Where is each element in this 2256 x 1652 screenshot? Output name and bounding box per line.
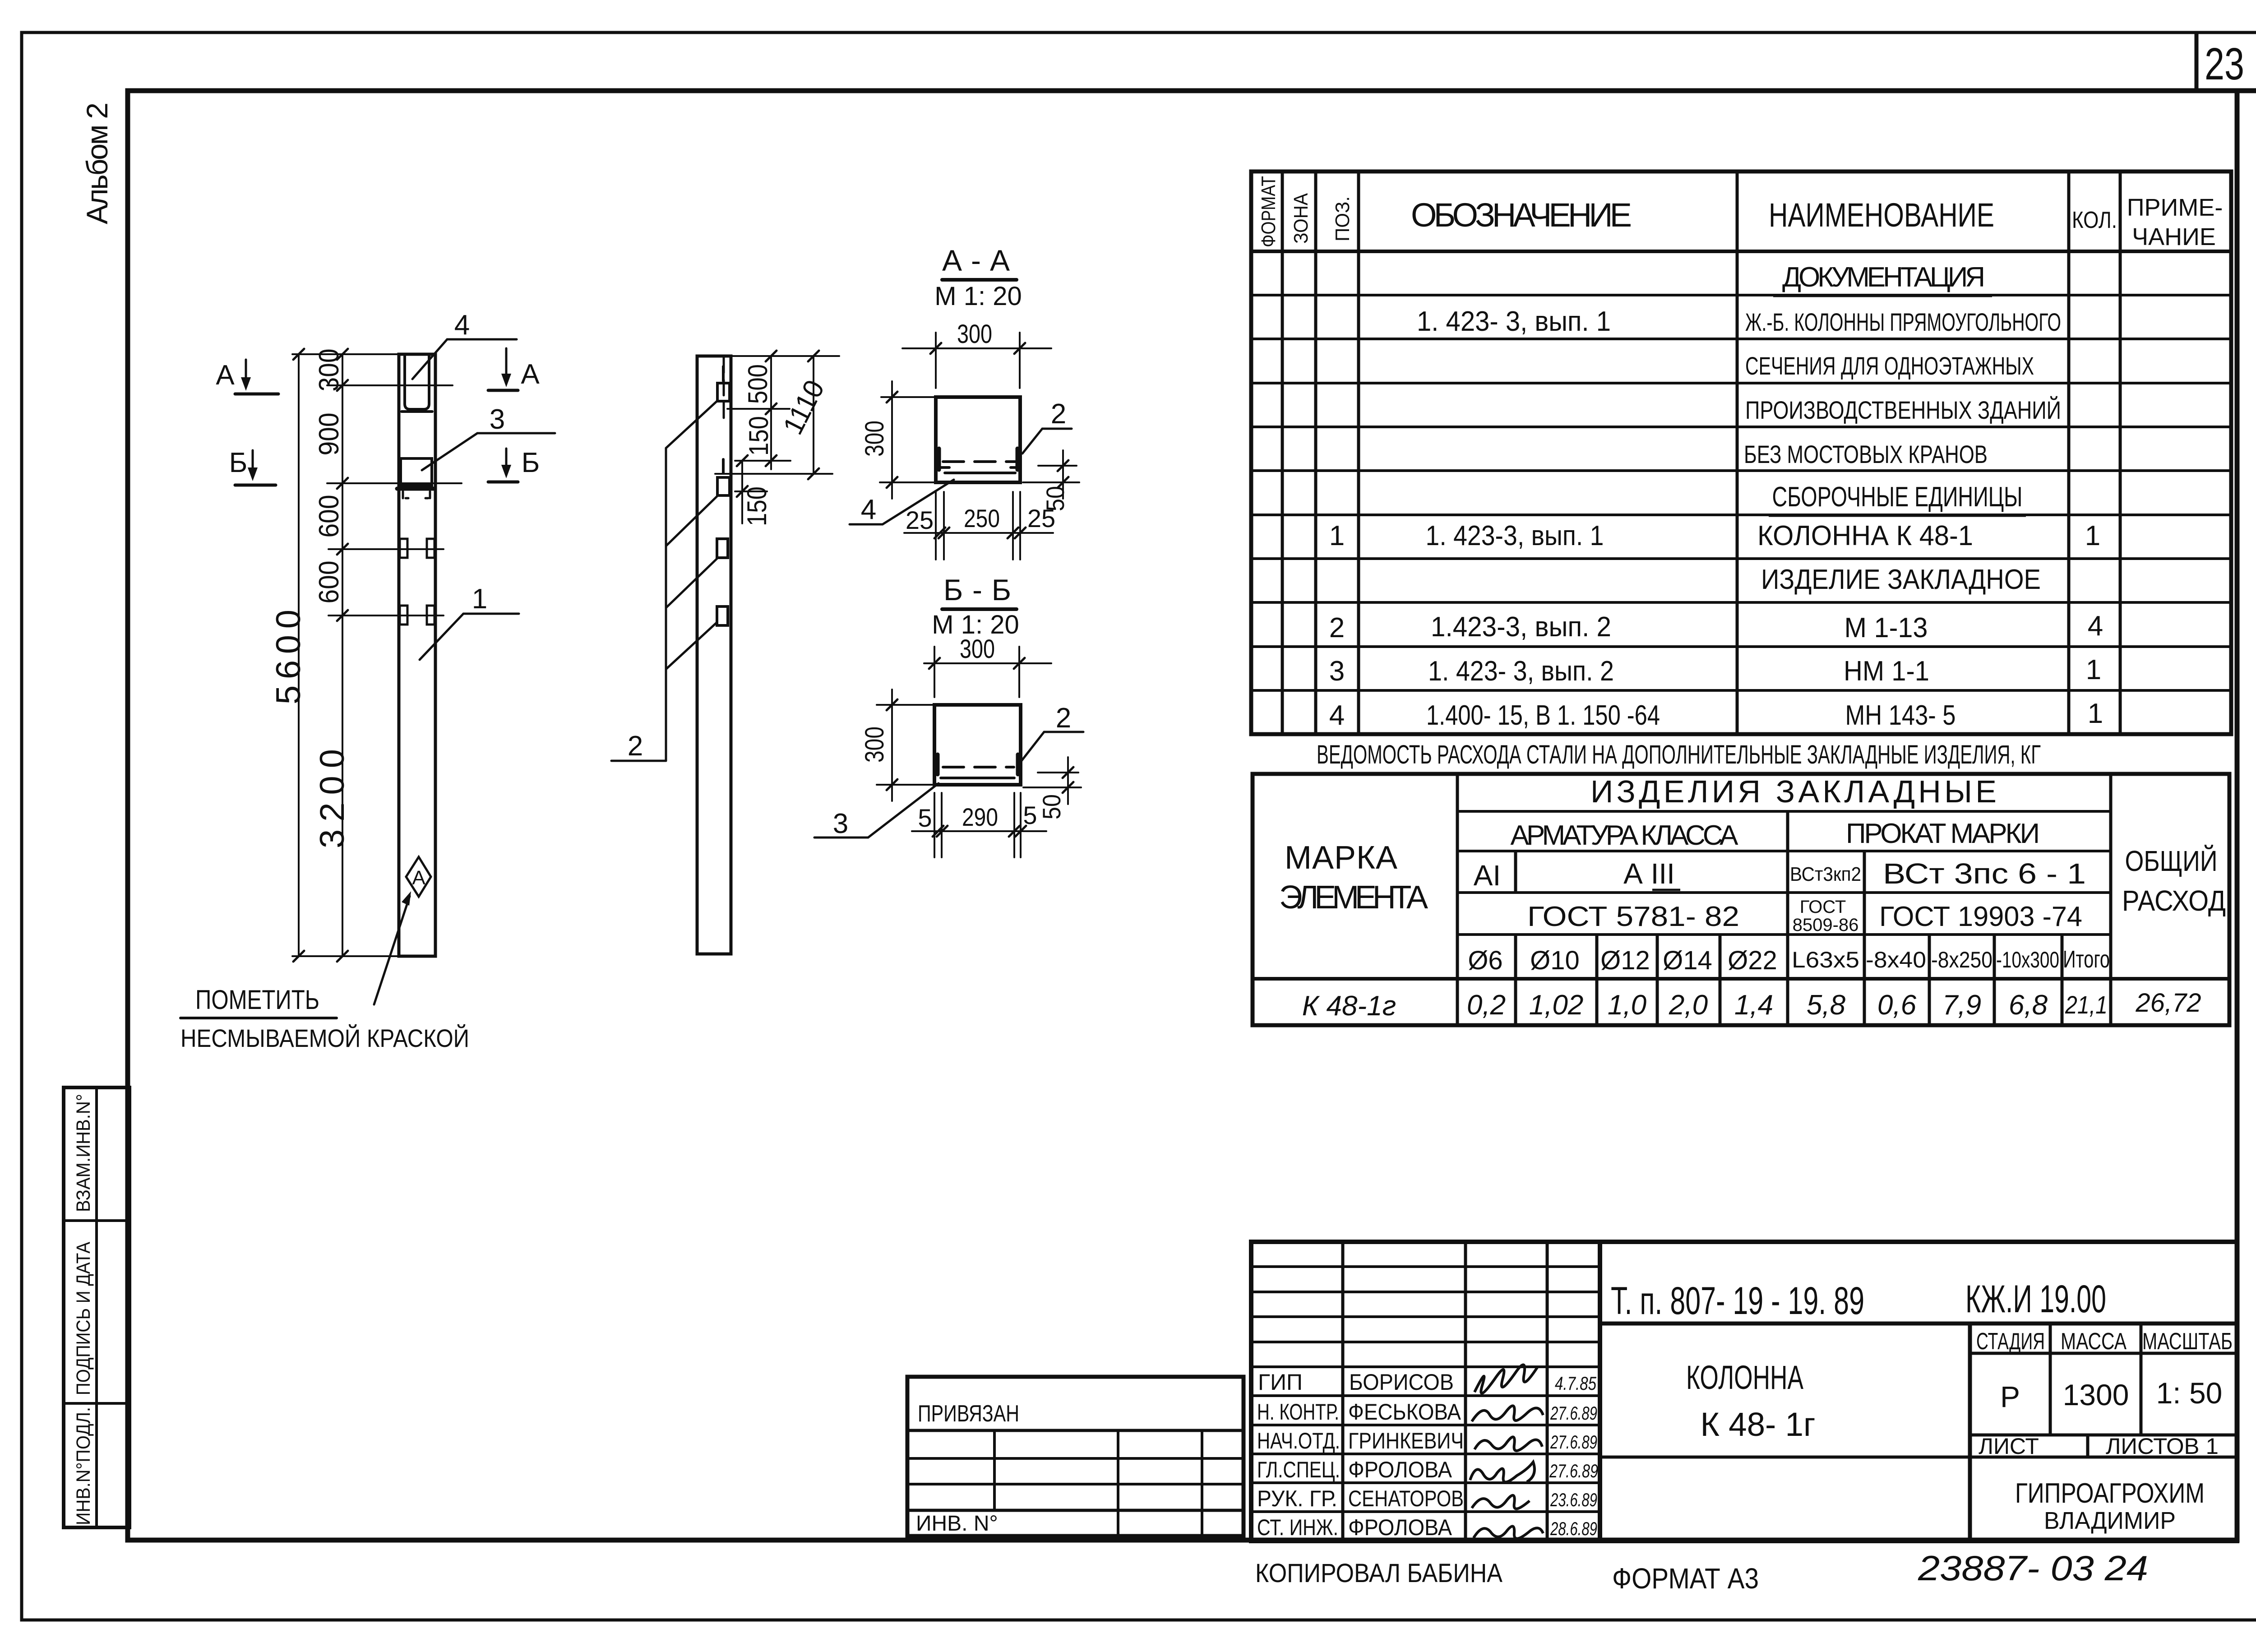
svg-text:ПРИМЕ-: ПРИМЕ- xyxy=(2127,194,2223,221)
svg-text:150: 150 xyxy=(744,416,774,456)
dim 300 top xyxy=(935,333,937,388)
svg-text:1: 1 xyxy=(1329,520,1345,551)
section A-A cut body xyxy=(936,397,1020,482)
svg-text:3: 3 xyxy=(1329,656,1345,687)
svg-text:27.6.89: 27.6.89 xyxy=(1550,1431,1597,1453)
dim chain lower 150 xyxy=(741,461,743,523)
signature dates xyxy=(1549,1373,1598,1539)
dim 50 right xyxy=(1038,465,1077,467)
svg-text:ГРИНКЕВИЧ: ГРИНКЕВИЧ xyxy=(1348,1428,1464,1453)
svg-text:500: 500 xyxy=(743,364,773,404)
svg-text:М 1: 20: М 1: 20 xyxy=(934,282,1022,311)
svg-text:23: 23 xyxy=(2205,39,2244,89)
svg-text:ЭЛЕМЕНТА: ЭЛЕМЕНТА xyxy=(1279,879,1428,916)
svg-text:300: 300 xyxy=(860,727,889,763)
svg-text:А: А xyxy=(412,867,425,889)
svg-text:0,2: 0,2 xyxy=(1467,990,1506,1021)
svg-text:1,4: 1,4 xyxy=(1734,990,1773,1021)
svg-text:ВСт 3пс 6 - 1: ВСт 3пс 6 - 1 xyxy=(1883,857,2086,890)
svg-text:ПОДПИСЬ И ДАТА: ПОДПИСЬ И ДАТА xyxy=(73,1242,94,1395)
svg-text:ГИПРОАГРОХИМ: ГИПРОАГРОХИМ xyxy=(2015,1478,2205,1509)
svg-text:1,0: 1,0 xyxy=(1608,990,1646,1021)
extension lines xyxy=(292,353,399,355)
dimension overall 5600 xyxy=(298,354,300,956)
svg-text:СЕЧЕНИЯ ДЛЯ ОДНОЭТАЖНЫХ: СЕЧЕНИЯ ДЛЯ ОДНОЭТАЖНЫХ xyxy=(1745,352,2034,380)
svg-text:Б: Б xyxy=(229,447,248,478)
data row xyxy=(1302,988,2201,1022)
svg-text:600: 600 xyxy=(314,561,345,604)
dim 50 right xyxy=(1038,772,1078,773)
svg-text:Ø22: Ø22 xyxy=(1728,946,1777,975)
svg-text:МАРКА: МАРКА xyxy=(1285,840,1397,876)
title block outer xyxy=(1251,1242,2237,1541)
svg-text:ВЕДОМОСТЬ РАСХОДА СТАЛИ НА ДОП: ВЕДОМОСТЬ РАСХОДА СТАЛИ НА ДОПОЛНИТЕЛЬНЫ… xyxy=(1317,740,2041,769)
svg-text:ВЗАМ.ИНВ.N°: ВЗАМ.ИНВ.N° xyxy=(73,1094,94,1212)
section mark A right xyxy=(488,348,540,390)
svg-text:КОЛ.: КОЛ. xyxy=(2072,207,2117,233)
svg-text:ГОСТ 5781- 82: ГОСТ 5781- 82 xyxy=(1527,901,1739,932)
leader label 3 xyxy=(422,404,555,470)
svg-text:ИНВ.N°ПОДЛ.: ИНВ.N°ПОДЛ. xyxy=(73,1407,94,1525)
svg-text:БОРИСОВ: БОРИСОВ xyxy=(1349,1370,1454,1395)
svg-text:50: 50 xyxy=(1037,794,1066,819)
svg-text:ВЛАДИМИР: ВЛАДИМИР xyxy=(2044,1507,2176,1534)
plate HM1-1 (pos 3) xyxy=(941,777,1014,779)
svg-text:290: 290 xyxy=(962,803,998,831)
svg-text:2: 2 xyxy=(628,731,643,762)
section Б-Б cut body xyxy=(934,705,1021,785)
hidden edge of channel (dashed) xyxy=(723,357,725,422)
embedded plates M1-13 (pos 2) pair 1 xyxy=(400,539,407,558)
svg-text:ЛИСТОВ 1: ЛИСТОВ 1 xyxy=(2106,1434,2219,1459)
svg-text:Н. КОНТР.: Н. КОНТР. xyxy=(1257,1399,1339,1425)
svg-text:М 1-13: М 1-13 xyxy=(1845,612,1928,643)
svg-text:L63x5: L63x5 xyxy=(1792,947,1859,972)
extension lines right xyxy=(731,355,839,357)
dim overall 1110 xyxy=(813,356,814,474)
svg-text:К 48-1г: К 48-1г xyxy=(1302,990,1396,1022)
svg-text:3: 3 xyxy=(490,404,505,435)
svg-text:25: 25 xyxy=(906,506,934,534)
svg-text:МН 143- 5: МН 143- 5 xyxy=(1845,700,1956,731)
svg-text:КЖ.И 19.00: КЖ.И 19.00 xyxy=(1965,1277,2106,1321)
svg-text:5: 5 xyxy=(1023,801,1037,829)
svg-text:600: 600 xyxy=(314,495,345,538)
svg-text:1: 50: 1: 50 xyxy=(2156,1376,2223,1410)
svg-text:900: 900 xyxy=(314,413,345,456)
svg-text:250: 250 xyxy=(964,504,1000,532)
svg-text:7,9: 7,9 xyxy=(1942,990,1981,1021)
note: Пометить несмываемой краской xyxy=(180,891,469,1052)
svg-text:26,72: 26,72 xyxy=(2135,988,2201,1018)
section mark Б right xyxy=(488,447,540,482)
svg-text:Ø14: Ø14 xyxy=(1663,946,1712,975)
svg-text:РАСХОД: РАСХОД xyxy=(2122,884,2226,917)
svg-text:СТ. ИНЖ.: СТ. ИНЖ. xyxy=(1257,1515,1338,1540)
svg-text:Итого: Итого xyxy=(2063,946,2110,973)
svg-text:РУК. ГР.: РУК. ГР. xyxy=(1257,1486,1337,1511)
plate tab 3 xyxy=(717,539,728,558)
dim 300 top xyxy=(934,647,935,697)
hidden line of channel xyxy=(943,460,1015,463)
svg-text:1300: 1300 xyxy=(2063,1378,2129,1411)
svg-text:1. 423- 3, вып. 1: 1. 423- 3, вып. 1 xyxy=(1417,306,1611,337)
svg-text:6,8: 6,8 xyxy=(2009,990,2048,1021)
svg-text:0,6: 0,6 xyxy=(1877,990,1917,1021)
plate tab 1 xyxy=(717,383,730,401)
svg-text:НАЧ.ОТД.: НАЧ.ОТД. xyxy=(1257,1428,1340,1453)
svg-text:5: 5 xyxy=(918,804,932,832)
grade mark diamond A xyxy=(406,857,431,897)
svg-text:Альбом 2: Альбом 2 xyxy=(80,102,114,224)
embedded channel MH143-5 (pos 4) at top xyxy=(403,355,406,404)
svg-text:ГИП: ГИП xyxy=(1258,1370,1303,1395)
svg-text:ИЗДЕЛИЯ ЗАКЛАДНЫЕ: ИЗДЕЛИЯ ЗАКЛАДНЫЕ xyxy=(1590,774,1997,809)
svg-text:ИЗДЕЛИЕ ЗАКЛАДНОЕ: ИЗДЕЛИЕ ЗАКЛАДНОЕ xyxy=(1761,564,2041,595)
svg-text:25: 25 xyxy=(1027,504,1055,532)
svg-text:5,8: 5,8 xyxy=(1807,990,1846,1021)
svg-text:2: 2 xyxy=(1056,703,1071,734)
svg-text:4: 4 xyxy=(1329,700,1345,731)
svg-text:ФЕСЬКОВА: ФЕСЬКОВА xyxy=(1348,1399,1461,1425)
svg-text:ПОМЕТИТЬ: ПОМЕТИТЬ xyxy=(195,985,319,1015)
steel table grid xyxy=(1253,774,2229,1025)
svg-text:ПРИВЯЗАН: ПРИВЯЗАН xyxy=(918,1401,1019,1427)
svg-text:ГЛ.СПЕЦ.: ГЛ.СПЕЦ. xyxy=(1257,1457,1340,1482)
svg-text:1: 1 xyxy=(2086,654,2101,685)
svg-text:КОПИРОВАЛ БАБИНА: КОПИРОВАЛ БАБИНА xyxy=(1255,1559,1502,1588)
plate tab 4 xyxy=(717,606,728,625)
svg-text:А: А xyxy=(521,359,540,390)
side plates (pos 2) edge marks xyxy=(936,754,940,774)
svg-text:Ж.-Б. КОЛОННЫ ПРЯМОУГОЛЬНОГО: Ж.-Б. КОЛОННЫ ПРЯМОУГОЛЬНОГО xyxy=(1745,308,2061,336)
svg-text:КОЛОННА: КОЛОННА xyxy=(1686,1359,1803,1396)
svg-text:ПРОКАТ МАРКИ: ПРОКАТ МАРКИ xyxy=(1846,818,2040,849)
signature table grid xyxy=(1251,1242,1600,1541)
svg-text:Ø10: Ø10 xyxy=(1530,946,1580,975)
plate tab 2 xyxy=(717,477,730,495)
dim 300 left xyxy=(881,396,936,398)
svg-text:23.6.89: 23.6.89 xyxy=(1550,1489,1597,1510)
svg-text:БЕЗ МОСТОВЫХ КРАНОВ: БЕЗ МОСТОВЫХ КРАНОВ xyxy=(1744,440,1988,468)
svg-text:1,02: 1,02 xyxy=(1529,990,1584,1021)
svg-text:8509-86: 8509-86 xyxy=(1793,915,1859,935)
embedded item HM1-1 (pos 3) xyxy=(401,458,432,486)
section mark A left xyxy=(216,360,278,394)
dims 5 290 5 bottom xyxy=(934,793,935,857)
embedded plates M1-13 (pos 2) pair 2 xyxy=(400,606,407,625)
svg-text:АI: АI xyxy=(1474,859,1501,892)
svg-text:23887- 03 24: 23887- 03 24 xyxy=(1918,1548,2148,1588)
hidden line xyxy=(943,766,1014,768)
svg-text:ПОЗ.: ПОЗ. xyxy=(1331,196,1354,241)
svg-text:А - А: А - А xyxy=(942,244,1010,277)
svg-text:1.400- 15, В 1. 150 -64: 1.400- 15, В 1. 150 -64 xyxy=(1426,700,1660,731)
svg-text:ОБОЗНАЧЕНИЕ: ОБОЗНАЧЕНИЕ xyxy=(1411,196,1632,234)
leader label 1 xyxy=(420,583,519,660)
svg-text:1.423-3, вып. 2: 1.423-3, вып. 2 xyxy=(1431,611,1611,643)
album label rotated: Альбом 2 xyxy=(80,102,114,224)
svg-text:Б: Б xyxy=(522,447,540,478)
sheet number box 23 xyxy=(2196,32,2244,91)
svg-text:Ø12: Ø12 xyxy=(1600,946,1650,975)
svg-text:1. 423- 3, вып. 2: 1. 423- 3, вып. 2 xyxy=(1428,656,1614,687)
svg-text:Т. п. 807- 19 - 19. 89: Т. п. 807- 19 - 19. 89 xyxy=(1611,1279,1864,1323)
svg-text:ИНВ. N°: ИНВ. N° xyxy=(916,1512,998,1536)
svg-text:Б - Б: Б - Б xyxy=(943,573,1011,606)
svg-text:3: 3 xyxy=(833,808,848,839)
svg-text:СБОРОЧНЫЕ ЕДИНИЦЫ: СБОРОЧНЫЕ ЕДИНИЦЫ xyxy=(1772,481,2023,513)
svg-text:СТАДИЯ: СТАДИЯ xyxy=(1976,1328,2045,1355)
svg-text:СЕНАТОРОВ: СЕНАТОРОВ xyxy=(1348,1486,1464,1511)
leader label 2 with leaders to tabs xyxy=(611,401,717,762)
svg-text:ФРОЛОВА: ФРОЛОВА xyxy=(1348,1515,1452,1540)
svg-text:300: 300 xyxy=(860,421,889,457)
svg-text:Ø6: Ø6 xyxy=(1468,946,1502,975)
svg-text:2: 2 xyxy=(1329,612,1345,643)
svg-text:А III: А III xyxy=(1623,857,1675,890)
svg-text:НМ 1-1: НМ 1-1 xyxy=(1844,656,1929,687)
svg-text:А: А xyxy=(216,360,235,391)
svg-text:4: 4 xyxy=(861,494,876,525)
svg-text:2: 2 xyxy=(1051,398,1066,430)
svg-text:4.7.85: 4.7.85 xyxy=(1555,1373,1596,1394)
dim chain 500 / 150 xyxy=(770,356,772,469)
svg-text:-8x250: -8x250 xyxy=(1931,947,1992,972)
svg-text:НАИМЕНОВАНИЕ: НАИМЕНОВАНИЕ xyxy=(1769,196,1994,234)
svg-text:ЗОНА: ЗОНА xyxy=(1290,193,1312,244)
attachment block (Привязан) xyxy=(907,1377,1244,1536)
svg-text:ГОСТ 19903 -74: ГОСТ 19903 -74 xyxy=(1879,901,2082,932)
svg-text:КОЛОННА К 48-1: КОЛОННА К 48-1 xyxy=(1757,520,1973,551)
svg-text:1: 1 xyxy=(2088,698,2103,729)
svg-text:1. 423-3, вып. 1: 1. 423-3, вып. 1 xyxy=(1426,520,1604,551)
svg-text:300: 300 xyxy=(957,319,992,349)
left margin stamp table xyxy=(64,1087,129,1527)
svg-text:Р: Р xyxy=(2000,1380,2020,1413)
svg-text:ЛИСТ: ЛИСТ xyxy=(1979,1434,2039,1459)
svg-text:ОБЩИЙ: ОБЩИЙ xyxy=(2125,844,2218,877)
svg-text:ГОСТ: ГОСТ xyxy=(1800,897,1846,917)
svg-text:ФОРМАТ: ФОРМАТ xyxy=(1257,176,1280,247)
svg-text:28.6.89: 28.6.89 xyxy=(1550,1518,1597,1539)
svg-text:НЕСМЫВАЕМОЙ КРАСКОЙ: НЕСМЫВАЕМОЙ КРАСКОЙ xyxy=(180,1024,469,1052)
svg-text:27.6.89: 27.6.89 xyxy=(1549,1460,1598,1481)
svg-text:ДОКУМЕНТАЦИЯ: ДОКУМЕНТАЦИЯ xyxy=(1782,262,1985,293)
svg-text:ВСт3кп2: ВСт3кп2 xyxy=(1790,863,1861,885)
svg-text:300: 300 xyxy=(314,349,345,392)
svg-text:300: 300 xyxy=(960,634,995,664)
channel plate MH143-5 (pos 4) xyxy=(945,472,1015,474)
svg-text:1: 1 xyxy=(2085,520,2100,551)
side plates (pos 2) edge marks xyxy=(937,449,941,470)
svg-text:АРМАТУРА КЛАССА: АРМАТУРА КЛАССА xyxy=(1511,820,1739,851)
signature squiggles xyxy=(1470,1365,1543,1538)
right part grid xyxy=(1600,1323,2237,1541)
svg-text:4: 4 xyxy=(454,310,470,341)
svg-text:2,0: 2,0 xyxy=(1669,990,1708,1021)
svg-text:МАСШТАБ: МАСШТАБ xyxy=(2142,1328,2233,1355)
svg-text:ЧАНИЕ: ЧАНИЕ xyxy=(2132,223,2216,250)
column K48-1 body (pos 1) xyxy=(399,354,435,956)
svg-text:150: 150 xyxy=(742,486,772,526)
leader label 4 xyxy=(412,310,517,379)
signature rows text xyxy=(1257,1370,1464,1540)
svg-text:МАССА: МАССА xyxy=(2061,1328,2127,1355)
dims 25 250 25 bottom xyxy=(935,492,937,560)
svg-text:21,1: 21,1 xyxy=(2065,990,2108,1019)
svg-text:ФОРМАТ А3: ФОРМАТ А3 xyxy=(1612,1562,1759,1595)
dim 300 left xyxy=(877,704,934,706)
specification table grid xyxy=(1251,171,2231,734)
svg-text:1: 1 xyxy=(472,583,487,615)
svg-text:-10x300: -10x300 xyxy=(1996,947,2059,972)
dimension chain segments xyxy=(342,354,343,956)
svg-text:ПРОИЗВОДСТВЕННЫХ ЗДАНИЙ: ПРОИЗВОДСТВЕННЫХ ЗДАНИЙ xyxy=(1745,396,2061,424)
svg-text:27.6.89: 27.6.89 xyxy=(1550,1402,1597,1424)
svg-text:4: 4 xyxy=(2088,611,2103,642)
column side silhouette xyxy=(697,356,731,954)
svg-text:ФРОЛОВА: ФРОЛОВА xyxy=(1348,1457,1452,1482)
section mark Б left xyxy=(229,447,276,485)
svg-text:К 48- 1г: К 48- 1г xyxy=(1701,1406,1816,1443)
svg-text:-8x40: -8x40 xyxy=(1866,947,1926,972)
